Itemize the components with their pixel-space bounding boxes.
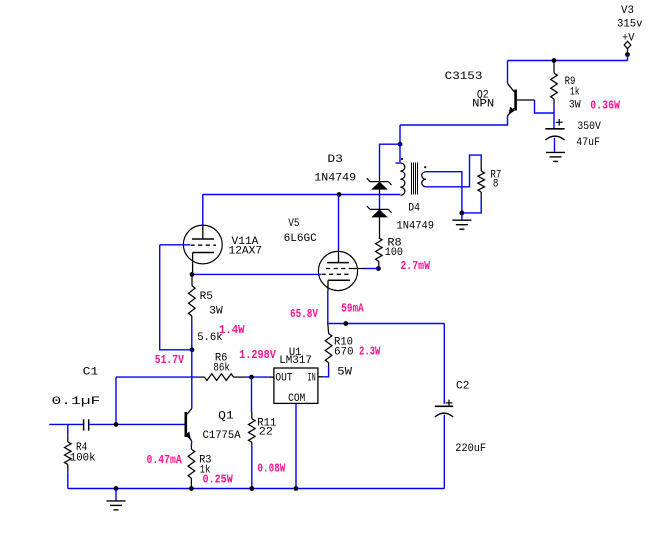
pin U1 OUT (269, 376, 274, 378)
junction cathode current point (343, 321, 348, 326)
wire Q2 emitter down-left (400, 116, 508, 125)
tube V11A plate (202, 226, 204, 239)
ground below 47uF (546, 151, 565, 153)
svg-text:350V: 350V (577, 121, 601, 133)
wire R6 to OUT (245, 376, 269, 378)
wire R4 top (67, 424, 69, 435)
wire Q1 emitter (190, 441, 192, 446)
svg-text:220uF: 220uF (455, 443, 486, 455)
capacitor C2 plus sign (446, 402, 453, 404)
diode D3 lead top (379, 177, 381, 182)
svg-text:0.36W: 0.36W (590, 100, 620, 113)
svg-text:65.8V: 65.8V (290, 308, 318, 321)
wire Q2 base to R9 bottom node (535, 100, 554, 113)
svg-text:OUT: OUT (275, 372, 292, 384)
svg-text:COM: COM (288, 393, 305, 405)
wire top rail (508, 60, 628, 62)
svg-text:LM317: LM317 (279, 355, 312, 367)
resistor R4 (67, 436, 69, 442)
svg-text:C2: C2 (456, 381, 470, 393)
resistor R9 (553, 61, 555, 74)
wire +V down to top rail (627, 55, 629, 61)
wire C2 to rail (443, 415, 445, 489)
diode D4 triangle (371, 209, 388, 217)
wire C1 to base node (89, 423, 116, 425)
junction rail COM (294, 486, 299, 491)
transistor Q1 base bar (185, 412, 188, 437)
svg-text:2.7mW: 2.7mW (400, 260, 430, 273)
transistor Q2 emitter lead (508, 108, 515, 116)
svg-text:C1: C1 (83, 367, 99, 379)
wire Q2 emitter to primary (399, 125, 401, 144)
svg-text:47uF: 47uF (576, 137, 600, 149)
resistor R11 (251, 377, 253, 412)
wire V5 cathode down (328, 291, 445, 324)
svg-text:1k: 1k (570, 87, 580, 99)
wire R7 bottom to ground node (462, 200, 481, 213)
wire +V terminal lead (627, 49, 629, 55)
wire Q1 base (116, 423, 185, 425)
resistor R8 (379, 217, 381, 237)
svg-text:V5: V5 (288, 218, 299, 230)
capacitor C2 top plate (435, 405, 453, 407)
svg-text:IN: IN (308, 372, 316, 384)
svg-text:86k: 86k (213, 362, 230, 374)
svg-text:D4: D4 (408, 202, 420, 214)
svg-text:1.298V: 1.298V (239, 349, 276, 362)
transformer secondary winding (422, 172, 426, 180)
svg-text:0.47mA: 0.47mA (147, 454, 182, 467)
wire V11A grid lead (160, 244, 190, 246)
capacitor 47uF plus sign (556, 121, 563, 123)
resistor R7 (480, 160, 482, 171)
transistor Q2 base lead (517, 99, 535, 101)
wire U1 IN to R10 (323, 366, 328, 377)
svg-text:C1775A: C1775A (203, 430, 241, 442)
tube V5 envelope (318, 251, 357, 290)
junction rail ground (114, 486, 119, 491)
tube V5 plate (338, 249, 340, 263)
tube V5 screen grid (326, 268, 349, 270)
capacitor C1 plates (83, 419, 85, 430)
svg-text:R5: R5 (200, 291, 213, 303)
wire cap to ground (554, 138, 556, 152)
junction V5 plate node (337, 192, 342, 197)
svg-text:3W: 3W (209, 305, 223, 317)
wire primary top lead (399, 144, 401, 162)
svg-text:0.08W: 0.08W (257, 463, 285, 476)
regulator U1 body (274, 368, 318, 403)
wire ground rail (68, 488, 445, 490)
junction rail R11 (249, 486, 254, 491)
ground below transformer (452, 219, 471, 221)
svg-text:100k: 100k (70, 452, 96, 464)
transformer secondary phase dot (424, 166, 426, 168)
junction node 51.7V (190, 347, 195, 352)
diode D3 triangle (371, 182, 388, 190)
wire R5 bottom (191, 323, 193, 350)
junction V11A cathode node (190, 272, 195, 277)
capacitor 47uF top plate (545, 128, 564, 130)
transformer core (411, 163, 413, 195)
resistor R6 (198, 376, 204, 378)
svg-text:59mA: 59mA (341, 302, 363, 315)
wire node to Q1 collector (191, 350, 193, 409)
tube V5 cathode (328, 279, 350, 281)
svg-text:1N4749: 1N4749 (397, 221, 435, 233)
terminal +V diamond (624, 41, 631, 48)
wire D3 anode to bus (379, 190, 381, 195)
junction C1 output node (114, 422, 119, 427)
transistor Q2 collector lead (508, 84, 515, 93)
transformer primary phase dot (401, 158, 403, 160)
svg-text:3W: 3W (569, 99, 581, 111)
transistor Q2 base bar (514, 90, 517, 111)
wire R11 to rail (251, 446, 253, 489)
capacitor 47uF bottom plate (545, 136, 564, 140)
wire ground stub (461, 213, 463, 220)
svg-text:6L6GC: 6L6GC (284, 233, 317, 245)
wire ground stub bottom (115, 489, 117, 501)
wire D3-D4 link (379, 195, 381, 210)
wire R9 bottom to cap (553, 107, 555, 129)
svg-text:1.4W: 1.4W (219, 324, 245, 337)
svg-text:C3153: C3153 (445, 71, 483, 83)
svg-text:22: 22 (259, 426, 273, 438)
junction R9 top (552, 58, 557, 63)
junction rail R3 (189, 486, 194, 491)
svg-text:V3: V3 (621, 5, 634, 17)
wire V5 plate (338, 195, 340, 250)
svg-text:12AX7: 12AX7 (229, 245, 263, 257)
wire to R6 (116, 376, 198, 378)
wire Q2 collector (507, 61, 509, 84)
resistor R3 (190, 446, 192, 449)
transistor Q2 emitter arrow (508, 107, 514, 115)
svg-text:100: 100 (385, 247, 403, 259)
tube V11A grid (191, 244, 217, 246)
pin U1 IN (318, 376, 323, 378)
wire secondary top to ground node (426, 172, 462, 213)
junction R8 screen node (376, 266, 381, 271)
svg-text:NPN: NPN (472, 98, 494, 110)
svg-text:Q1: Q1 (218, 411, 234, 423)
wire U1 COM down (295, 403, 297, 488)
junction primary top node (398, 142, 403, 147)
svg-text:315v: 315v (617, 19, 643, 31)
wire R4 to rail (67, 473, 69, 489)
wire to C2 (443, 324, 445, 404)
diode D3 zener cathode bar (370, 181, 388, 183)
svg-text:670: 670 (334, 347, 354, 359)
wire plate bus (203, 194, 400, 196)
wire feedback to grid (160, 245, 192, 350)
svg-text:D3: D3 (327, 154, 343, 166)
junction R6 R11 OUT node (249, 375, 254, 380)
resistor R5 (191, 274, 193, 285)
wire screen to R8 (365, 268, 378, 270)
svg-text:0.25W: 0.25W (203, 474, 233, 487)
svg-text:8: 8 (493, 178, 499, 190)
resistor R10 (327, 324, 330, 334)
transistor Q1 emitter arrow (185, 432, 191, 440)
wire input (49, 423, 83, 425)
svg-text:5W: 5W (337, 366, 352, 378)
wire node to D3 (380, 144, 401, 176)
wire V11A plate (202, 194, 204, 226)
transistor Q1 collector lead (187, 409, 192, 415)
wire C1 node up (115, 377, 117, 424)
transformer primary winding (396, 162, 401, 164)
ground main (107, 500, 126, 502)
transistor Q1 emitter lead (187, 435, 192, 441)
svg-text:51.7V: 51.7V (155, 354, 184, 367)
svg-text:1N4749: 1N4749 (314, 172, 356, 184)
wire V5 grid to V11A cathode (192, 273, 321, 275)
tube V11A cathode (193, 252, 214, 254)
svg-text:0.1µF: 0.1µF (52, 396, 101, 408)
svg-text:2.3W: 2.3W (359, 346, 380, 359)
tube V11A envelope (183, 225, 222, 264)
wire secondary bottom to R7 (426, 155, 481, 187)
diode D4 zener cathode bar (370, 208, 388, 210)
junction secondary ground (460, 211, 465, 216)
capacitor C2 bottom plate (435, 413, 453, 417)
junction +V terminal dot (625, 52, 630, 57)
tube V5 control grid (322, 273, 350, 275)
